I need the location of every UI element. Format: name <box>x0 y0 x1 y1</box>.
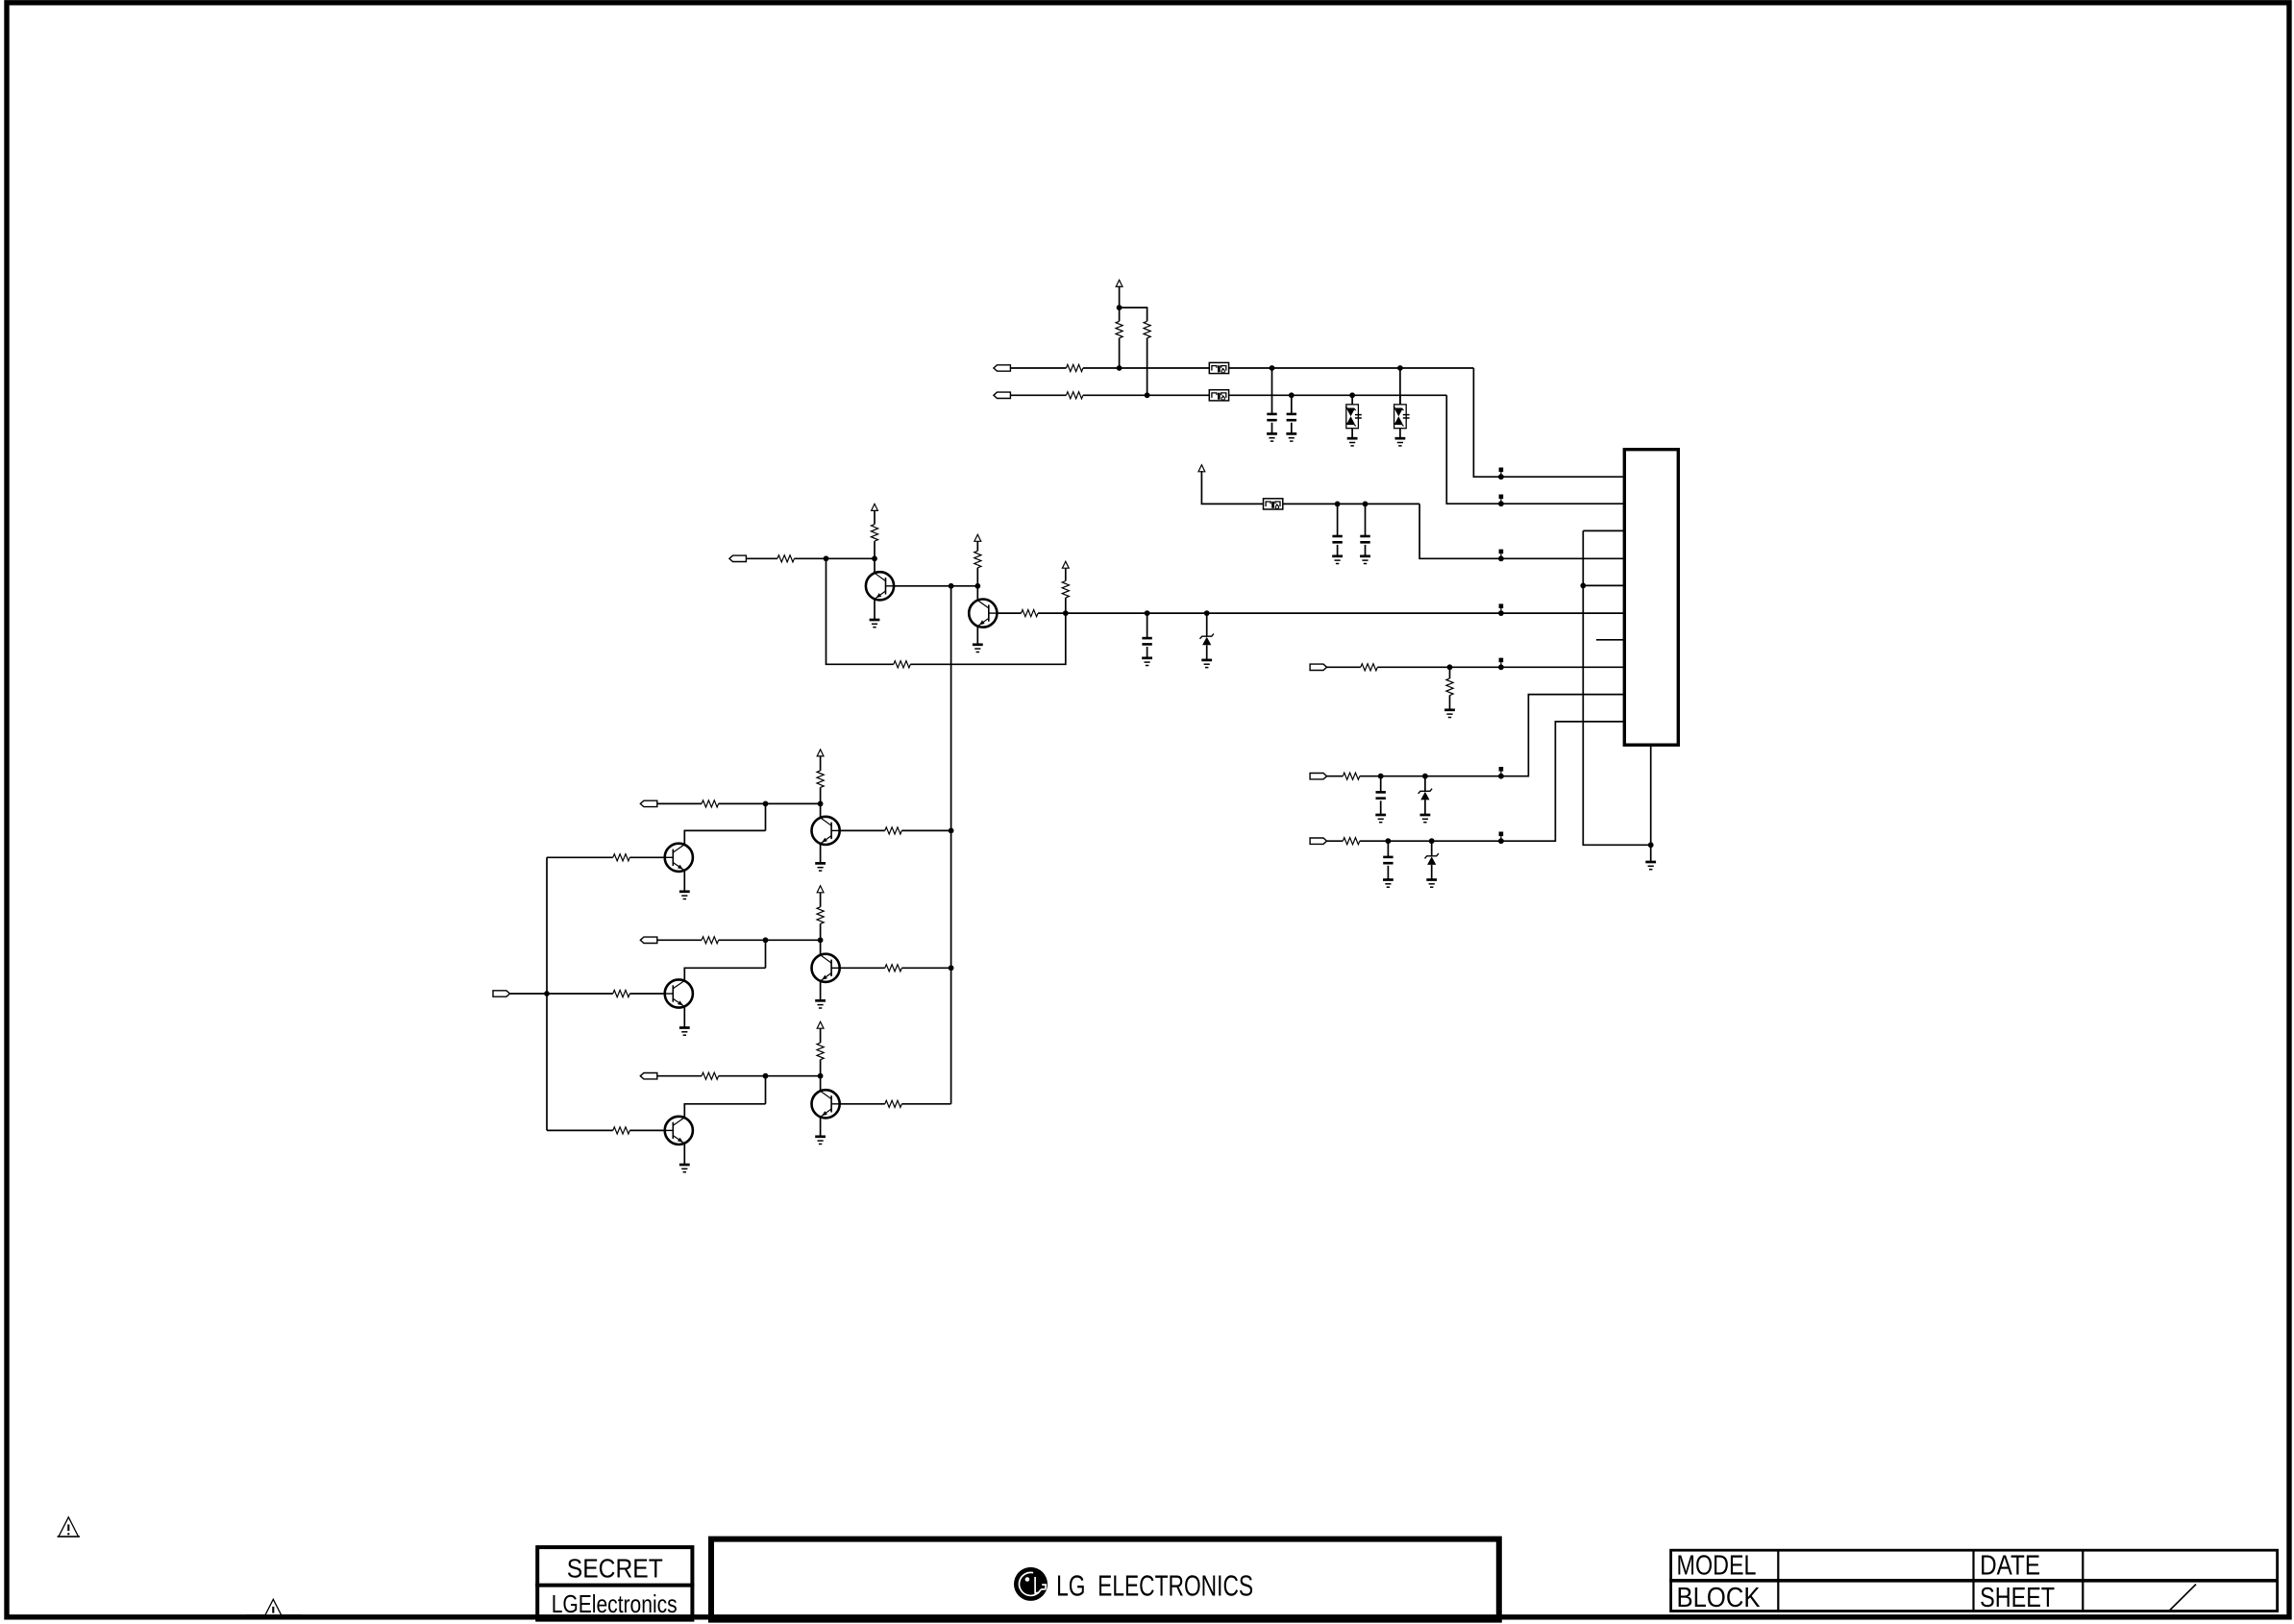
capacitor C5 <box>1142 638 1151 644</box>
wire Qb3 emitter <box>820 1117 822 1137</box>
wire R21 to VCC <box>820 755 822 771</box>
junction feedback tap <box>824 555 829 561</box>
wire Q2 emitter <box>976 627 978 645</box>
wire rowA to IC pin8 <box>1377 666 1624 668</box>
TVS diode D1 <box>1345 395 1362 437</box>
wire C3 to ground <box>1337 545 1339 556</box>
wire IC pin5 stub <box>1583 584 1624 586</box>
VCC arrow A6 <box>817 750 824 756</box>
VCC arrow A3 <box>872 504 878 510</box>
wire A1 to node <box>1119 286 1121 308</box>
wire to capacitor C7 <box>1387 841 1389 857</box>
ground C5 <box>1142 658 1152 666</box>
wire R15 to Qa1 <box>629 856 664 858</box>
net tie pin1 <box>1498 468 1504 480</box>
VCC arrow A8 <box>817 1021 824 1028</box>
wire node to R22 <box>820 923 822 940</box>
capacitor C7 <box>1383 857 1393 863</box>
resistor R26 <box>885 1100 902 1107</box>
svg-text:SECRET: SECRET <box>567 1554 663 1584</box>
junction Q2 base node <box>974 583 980 589</box>
junction W1-C1 <box>1270 365 1275 371</box>
junction W2-C2 <box>1289 392 1295 398</box>
wire Qa3 base lead <box>547 1129 613 1131</box>
wire R2 to W2 <box>1147 338 1148 396</box>
ground Qa3 <box>679 1165 690 1172</box>
resistor R16 <box>613 990 630 997</box>
wire P2 to R4 <box>1010 394 1066 396</box>
junction R1-W1 <box>1117 365 1122 371</box>
wire P1 to R3 <box>1010 367 1066 369</box>
resistor R1 <box>1116 321 1122 338</box>
net tie pin6 <box>1498 603 1504 616</box>
wire P8 to R18 <box>657 802 702 804</box>
wire Qb2 emitter <box>820 981 822 1001</box>
junction bus Qb1 <box>949 828 954 834</box>
svg-text:BLOCK: BLOCK <box>1677 1583 1762 1613</box>
zener diode D3 <box>1418 776 1432 815</box>
junction Q1 base node <box>872 555 877 561</box>
resistor R4 <box>1066 392 1083 399</box>
wire Qb1 collector <box>840 829 885 831</box>
zener diode D5 <box>1200 613 1214 660</box>
wire P3 to R5 <box>746 557 777 559</box>
wire Qb2 collector <box>840 967 885 969</box>
ground D4 <box>1426 880 1437 888</box>
resistor R15 <box>613 854 630 861</box>
connector P5 <box>1310 774 1327 779</box>
wire C7 to ground <box>1387 866 1389 880</box>
wire Qa3 collector <box>684 1104 765 1118</box>
wire out to IC pin6 <box>1066 612 1625 614</box>
wire to capacitor C6 <box>1380 776 1382 793</box>
VCC arrow A5 <box>1062 561 1069 568</box>
wire P4 to R11 <box>1327 666 1361 668</box>
wire rowB <box>1360 695 1625 776</box>
wire tie down <box>765 940 767 968</box>
resistor R9 <box>1062 581 1069 599</box>
wire Qa2 emitter <box>683 1006 685 1027</box>
junction bottom pin-bus <box>1648 842 1654 848</box>
wire R5 to node Q1 <box>794 557 875 559</box>
junction rowB-C6 <box>1378 774 1384 779</box>
resistor R11 <box>1361 664 1378 671</box>
capacitor C3 <box>1332 536 1342 542</box>
ground Qa2 <box>679 1028 690 1036</box>
junction out-C5 <box>1145 610 1150 616</box>
wire R23 to VCC <box>820 1027 822 1043</box>
wire vertical bus <box>950 586 952 1104</box>
resistor R21 pullup <box>817 771 824 788</box>
resistor R3 <box>1066 364 1083 371</box>
wire R16 to Qa2 <box>629 993 664 995</box>
junction bus pin5 <box>1580 583 1586 589</box>
wire C5 to ground <box>1147 647 1148 658</box>
wire R6 to A3 <box>874 510 876 525</box>
resistor R19 <box>702 937 719 944</box>
wire to capacitor C5 <box>1147 613 1148 638</box>
connector P3 <box>729 555 747 561</box>
svg-text:DATE: DATE <box>1980 1551 2040 1582</box>
connector P9 <box>640 937 657 943</box>
connector P10 <box>640 1073 657 1079</box>
ground Qb2 <box>815 1000 826 1008</box>
wire P7 to bus <box>510 993 547 995</box>
wire C6 to ground <box>1380 800 1382 815</box>
net tie pin8 <box>1498 658 1504 671</box>
warning triangle 2 <box>262 1599 285 1618</box>
wire Qa1 emitter <box>683 871 685 892</box>
wire Qb1 emitter <box>820 844 822 864</box>
transistor Qa2 <box>665 979 693 1007</box>
wire C1 to ground <box>1271 423 1273 434</box>
zener diode D4 <box>1425 841 1439 879</box>
junction Qb2 base node <box>818 937 824 943</box>
node top-rail junction <box>1117 305 1122 310</box>
wire IC pin7 stub <box>1596 639 1624 641</box>
wire tie down <box>765 803 767 830</box>
resistor R18 <box>702 800 719 807</box>
junction bus top <box>949 583 954 589</box>
TVS diode D2 <box>1394 395 1410 437</box>
svg-text:LGElectronics: LGElectronics <box>552 1589 678 1618</box>
wire Qb3 collector <box>840 1103 885 1105</box>
junction left bus <box>544 991 550 997</box>
junction rail-C3 <box>1335 502 1341 507</box>
ground IC <box>1645 862 1656 870</box>
wire Qb2 base <box>820 940 822 954</box>
wire Q1 emitter <box>874 599 876 620</box>
wire rowC <box>1360 722 1625 841</box>
resistor R2 <box>1144 321 1150 338</box>
net tie pin10 <box>1498 832 1504 845</box>
capacitor C4 <box>1360 536 1369 542</box>
wire R8 to node <box>1038 612 1066 614</box>
connector P8 <box>640 800 657 806</box>
wire W2 main <box>1083 394 1446 396</box>
ground Qa1 <box>679 892 690 899</box>
VCC arrow A4 <box>974 534 981 541</box>
resistor R5 <box>777 555 795 562</box>
resistor R25 <box>885 965 902 972</box>
ground Q2 <box>973 645 983 652</box>
LG logo <box>1014 1567 1048 1601</box>
junction rowC-C7 <box>1386 838 1392 844</box>
resistor R10 <box>894 661 911 668</box>
resistor R24 <box>885 827 902 834</box>
resistor R7 <box>974 551 981 568</box>
ground C6 <box>1375 815 1386 823</box>
VCC arrow A7 <box>817 886 824 893</box>
wire R22 to VCC <box>820 892 822 907</box>
ground C4 <box>1360 556 1370 564</box>
resistor R12 vertical <box>1446 678 1453 696</box>
wire A2 rail <box>1201 471 1263 504</box>
svg-text:SHEET: SHEET <box>1980 1583 2055 1613</box>
wire R17 to Qa3 <box>629 1129 664 1131</box>
wire W1 to IC pin1 <box>1473 368 1624 477</box>
junction Q2 out node <box>1063 610 1069 616</box>
junction Qb3 base node <box>818 1073 824 1079</box>
wire feedback left <box>826 558 894 664</box>
VCC arrow A1 <box>1116 280 1122 286</box>
ground C3 <box>1332 556 1343 564</box>
wire Qb1 base <box>820 803 822 817</box>
ground D2 <box>1395 438 1406 446</box>
capacitor C6 <box>1376 792 1386 798</box>
wire R7 to A4 <box>976 541 978 552</box>
wire P6 to R14 <box>1327 840 1344 842</box>
title block divider v1 <box>1777 1550 1779 1611</box>
wire node to R7 <box>976 568 978 586</box>
wire to capacitor C4 <box>1365 504 1367 536</box>
title block outer <box>1671 1550 2278 1611</box>
ground Qb1 <box>815 863 826 871</box>
title block divider h <box>1669 1579 2278 1583</box>
resistor R14 <box>1343 838 1360 845</box>
net tie pin2 <box>1498 495 1504 507</box>
wire node to R1 <box>1119 308 1121 321</box>
svg-text:MODEL: MODEL <box>1677 1551 1757 1582</box>
resistor R13 <box>1343 773 1360 779</box>
wire node to R21 <box>820 787 822 803</box>
connector P6 <box>1310 838 1327 844</box>
resistor R22 pullup <box>817 907 824 924</box>
transistor Qb1 <box>812 817 840 845</box>
junction Qa1 tie <box>763 801 769 807</box>
junction rowA-R12 <box>1447 664 1453 670</box>
junction Qa3 tie <box>763 1073 769 1079</box>
wire rail to IC pin4 <box>1419 504 1624 558</box>
wire W2 to IC pin2 <box>1446 395 1624 504</box>
wire P10 to R20 <box>657 1075 702 1077</box>
wire Qb3 base <box>820 1076 822 1091</box>
wire to capacitor C3 <box>1337 504 1339 536</box>
connector P7 <box>493 991 510 997</box>
wire Qa3 emitter <box>683 1144 685 1165</box>
wire IC side bus <box>1583 530 1650 845</box>
wire R26 to bus <box>901 1103 950 1105</box>
sheet slash <box>2169 1585 2196 1612</box>
svg-text:LG ELECTRONICS: LG ELECTRONICS <box>1056 1569 1253 1603</box>
border patch under triangle 2 <box>246 1614 302 1619</box>
junction bus Qb2 <box>949 965 954 971</box>
wire Q1 base <box>874 558 876 572</box>
wire Q1 collector <box>894 585 977 587</box>
ground Q1 <box>870 620 880 627</box>
wire P9 to R19 <box>657 939 702 941</box>
ferrite bead L2 <box>1209 390 1228 401</box>
VCC arrow A2 <box>1198 465 1205 472</box>
transistor Qb2 <box>812 954 840 982</box>
wire R20 to node <box>719 1075 821 1077</box>
wire R24 to bus <box>901 829 950 831</box>
wire Qa1 collector <box>684 830 765 845</box>
wire IC pin3 <box>1583 529 1624 531</box>
net tie pin4 <box>1498 550 1504 562</box>
transistor Qa1 <box>665 844 693 872</box>
wire R12 to ground <box>1449 696 1451 710</box>
resistor R8 <box>1022 610 1039 617</box>
ferrite bead L3 <box>1264 499 1283 509</box>
wire to capacitor C2 <box>1291 395 1293 414</box>
wire left bus <box>546 857 548 1130</box>
wire R19 to node <box>719 939 821 941</box>
ground Qb3 <box>815 1137 826 1144</box>
wire R9 to A5 <box>1065 567 1067 580</box>
transistor Qa3 <box>665 1117 693 1144</box>
LG ELECTRONICS box <box>711 1539 1499 1620</box>
junction Qb1 base node <box>818 801 824 807</box>
connector P4 <box>1310 664 1327 670</box>
wire R18 to node <box>719 802 821 804</box>
SECRET box divider <box>535 1584 694 1587</box>
transistor Q2 <box>969 600 997 627</box>
wire Q2 base <box>976 586 978 600</box>
ground C7 <box>1383 880 1394 888</box>
capacitor C2 <box>1287 414 1296 420</box>
title block divider v2 <box>1972 1550 1974 1611</box>
wire P5 to R13 <box>1327 775 1344 777</box>
wire node to R2 branch <box>1120 308 1147 321</box>
ground C1 <box>1267 433 1277 441</box>
junction W2-D1 <box>1349 392 1355 398</box>
resistor R6 <box>871 525 877 542</box>
wire W1 to D2 <box>1399 368 1401 405</box>
ground D3 <box>1420 815 1431 823</box>
wire R1 to W1 <box>1119 338 1121 368</box>
junction rowB-D3 <box>1422 774 1428 779</box>
ground D5 <box>1201 660 1212 668</box>
wire Q2 collector <box>997 612 1021 614</box>
junction W1-D2 <box>1397 365 1403 371</box>
wire rail to corner <box>1283 503 1419 504</box>
resistor R17 <box>613 1127 630 1134</box>
transistor Qb3 <box>812 1090 840 1118</box>
SECRET box <box>537 1547 692 1620</box>
wire C2 to ground <box>1291 423 1293 434</box>
net tie pin9 <box>1498 767 1504 779</box>
ground D1 <box>1347 438 1358 446</box>
warning triangle 1 <box>58 1517 81 1537</box>
wire IC bottom pin <box>1650 745 1652 862</box>
wire node to R9 <box>1065 598 1067 613</box>
wire R12 top <box>1449 667 1451 678</box>
ground R12 <box>1444 710 1455 718</box>
wire C4 to ground <box>1365 545 1367 556</box>
wire Qa2 collector <box>684 968 765 980</box>
IC U1 <box>1624 450 1678 746</box>
junction Qa2 tie <box>763 937 769 943</box>
junction R2-W2 <box>1145 392 1150 398</box>
wire Qa1 base lead <box>547 856 613 858</box>
connector P2 <box>994 392 1011 398</box>
wire to capacitor C1 <box>1271 368 1273 414</box>
junction rail-C4 <box>1363 502 1369 507</box>
wire tie down <box>765 1076 767 1104</box>
resistor R23 pullup <box>817 1043 824 1060</box>
wire feedback right <box>910 613 1066 664</box>
wire node to R23 <box>820 1060 822 1076</box>
junction out-D5 <box>1204 610 1210 616</box>
junction rowC-D4 <box>1429 838 1435 844</box>
capacitor C1 <box>1267 414 1276 420</box>
wire W1 main <box>1083 367 1474 369</box>
wire R25 to bus <box>901 967 950 969</box>
ground C2 <box>1286 433 1296 441</box>
wire node to R6 <box>874 541 876 558</box>
connector P1 <box>994 365 1011 371</box>
transistor Q1 <box>866 572 894 600</box>
title block divider v3 <box>2082 1550 2084 1611</box>
wire Qa2 base lead <box>547 993 613 995</box>
ferrite bead L1 <box>1209 362 1228 373</box>
resistor R20 <box>702 1072 719 1079</box>
